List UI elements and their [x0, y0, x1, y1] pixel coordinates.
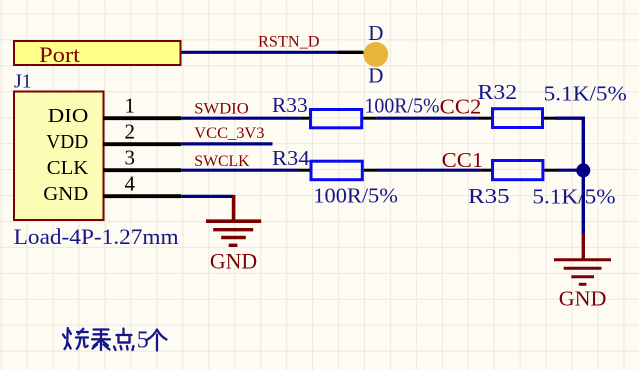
svg-text:5: 5	[137, 328, 149, 354]
svg-text:100R/5%: 100R/5%	[313, 183, 398, 207]
resistor R35	[481, 161, 557, 180]
svg-text:R34: R34	[272, 146, 310, 170]
wire from R32 down the right bus to ground	[555, 118, 583, 234]
svg-text:1: 1	[124, 94, 135, 118]
svg-text:D: D	[368, 64, 383, 88]
svg-text:Port: Port	[39, 42, 81, 67]
svg-text:2: 2	[124, 120, 135, 144]
svg-text:5.1K/5%: 5.1K/5%	[544, 81, 627, 105]
svg-text:4: 4	[124, 172, 135, 196]
svg-text:VDD: VDD	[46, 131, 88, 153]
port Port (connector to J1)	[14, 41, 181, 67]
svg-text:RSTN_D: RSTN_D	[258, 34, 320, 51]
ground GND (left)	[206, 195, 261, 245]
pin 2	[103, 120, 181, 145]
pin 4	[103, 172, 181, 197]
svg-text:Load-4P-1.27mm: Load-4P-1.27mm	[14, 224, 179, 249]
resistor R34	[300, 161, 378, 180]
pin 1	[103, 94, 181, 119]
svg-text:R32: R32	[478, 80, 518, 104]
annotation text 烧录点5个 (drawn strokes)	[63, 328, 134, 350]
junction dot	[576, 163, 590, 177]
resistor R32	[477, 109, 555, 128]
hanzi 个 (counter)	[148, 330, 167, 351]
svg-text:SWDIO: SWDIO	[194, 100, 248, 117]
wire RSTN_D from port to pad	[182, 51, 339, 54]
ground GND (right)	[554, 233, 611, 284]
svg-text:GND: GND	[559, 287, 607, 311]
wire net CC1 (R34 to R35)	[377, 169, 481, 172]
wire pin4 to ground	[181, 195, 233, 198]
svg-text:3: 3	[124, 146, 135, 170]
svg-text:GND: GND	[210, 249, 257, 274]
wire net SWCLK (pin3 to R34)	[181, 169, 299, 172]
svg-text:GND: GND	[43, 183, 88, 205]
svg-text:CLK: CLK	[47, 157, 89, 179]
pin stub of test pad D	[338, 51, 364, 54]
svg-text:CC2: CC2	[440, 94, 482, 118]
hanzi 烧 (burn)	[63, 328, 88, 349]
svg-text:VCC_3V3: VCC_3V3	[194, 125, 264, 142]
svg-text:5.1K/5%: 5.1K/5%	[532, 185, 615, 209]
pin 3	[103, 146, 181, 171]
wire net CC2 (R33 to R32)	[376, 117, 477, 120]
hanzi 点 (point)	[114, 329, 134, 351]
hanzi 录 (record)	[92, 330, 110, 351]
svg-text:R35: R35	[468, 184, 510, 208]
svg-text:DIO: DIO	[48, 105, 89, 127]
wire R35 to junction	[557, 169, 582, 172]
svg-text:D: D	[368, 21, 383, 45]
resistor R33	[299, 110, 376, 128]
component J1 body (Load-4P-1.27mm)	[14, 92, 104, 221]
wire net SWDIO (pin1 to R33)	[181, 117, 299, 120]
svg-text:100R/5%: 100R/5%	[365, 94, 440, 118]
svg-text:SWCLK: SWCLK	[194, 153, 250, 170]
svg-text:CC1: CC1	[442, 148, 484, 172]
svg-text:J1: J1	[14, 71, 32, 93]
test pad D (solder dot)	[363, 42, 388, 67]
wire net VCC_3V3 (pin2)	[181, 142, 272, 145]
svg-text:R33: R33	[272, 93, 308, 117]
